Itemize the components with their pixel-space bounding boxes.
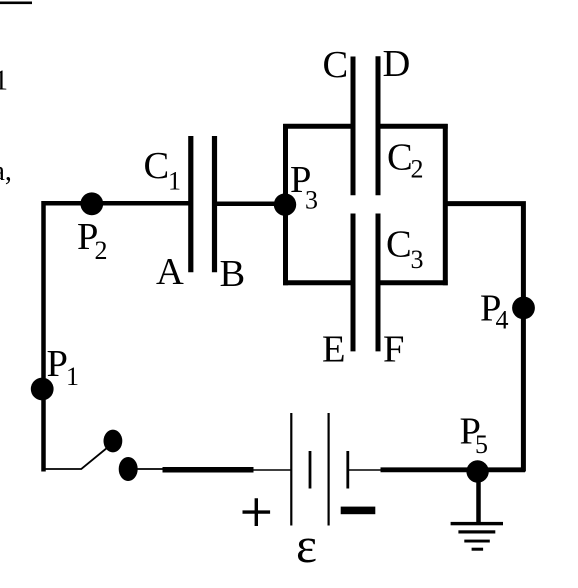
svg-text:F: F <box>383 329 404 371</box>
svg-text:2: 2 <box>95 236 108 265</box>
svg-text:C: C <box>323 44 349 86</box>
svg-text:B: B <box>220 253 246 295</box>
svg-text:A: A <box>156 251 184 293</box>
svg-text:5: 5 <box>475 430 488 459</box>
svg-text:a,: a, <box>0 156 12 187</box>
svg-text:1: 1 <box>66 362 79 391</box>
svg-text:E: E <box>322 329 346 371</box>
svg-text:1: 1 <box>168 167 181 196</box>
svg-text:1: 1 <box>0 66 8 97</box>
svg-text:C: C <box>386 224 412 266</box>
svg-text:3: 3 <box>411 245 424 274</box>
svg-text:3: 3 <box>305 186 318 215</box>
svg-text:D: D <box>383 43 411 85</box>
svg-text:C: C <box>144 145 170 187</box>
svg-text:2: 2 <box>411 154 424 183</box>
svg-text:4: 4 <box>496 306 509 335</box>
svg-text:P: P <box>47 343 68 385</box>
svg-text:ε: ε <box>296 517 317 573</box>
svg-text:C: C <box>387 137 413 179</box>
